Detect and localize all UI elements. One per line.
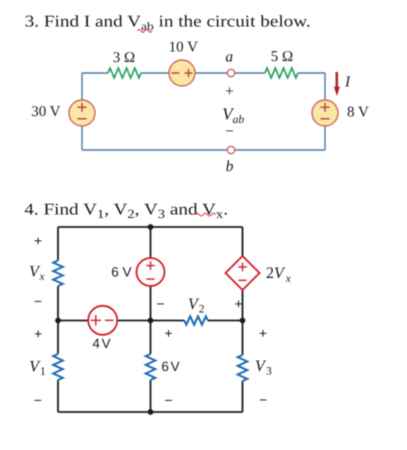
svg-text:−: −: [259, 393, 267, 408]
svg-text:x: x: [39, 271, 46, 283]
svg-text:a: a: [225, 48, 233, 65]
svg-text:5 Ω: 5 Ω: [271, 49, 293, 65]
resistor 5 ohm: [265, 49, 298, 78]
svg-text:+: +: [259, 326, 267, 341]
resistor 3 ohm: [108, 50, 141, 78]
svg-text:6 V: 6 V: [111, 264, 131, 279]
svg-text:2: 2: [199, 304, 205, 316]
voltage source 30V: [31, 100, 95, 126]
dependent source 2Vx diamond: [226, 256, 260, 290]
svg-text:+: +: [234, 296, 242, 311]
label +Vab-: [222, 83, 244, 140]
svg-text:I: I: [344, 74, 351, 91]
svg-text:−: −: [164, 393, 172, 408]
label V3: [255, 358, 272, 378]
red squiggle under ab: [137, 30, 152, 33]
wire bottom circuit 2: [58, 411, 243, 413]
wire bottom circuit 1: [82, 149, 325, 151]
svg-text:30 V: 30 V: [31, 104, 60, 120]
junction dot bottom middle: [148, 409, 154, 415]
svg-text:b: b: [226, 158, 234, 175]
wire top circuit 1: [82, 72, 325, 74]
wire right circuit 1: [324, 73, 326, 150]
label Vx: [29, 264, 45, 284]
node b: [226, 146, 235, 175]
svg-text:4. Find V1, V2, V3 and Vx.: 4. Find V1, V2, V3 and Vx.: [24, 199, 228, 220]
svg-text:x: x: [285, 273, 292, 285]
svg-text:1: 1: [40, 366, 46, 378]
junction dot right middle: [240, 318, 246, 324]
svg-text:+: +: [225, 83, 234, 100]
wire left rail segments: [57, 227, 59, 412]
node a: [225, 48, 234, 76]
voltage source 8V: [312, 100, 369, 126]
svg-text:+: +: [34, 233, 42, 248]
svg-text:−: −: [225, 123, 234, 140]
wire middle rail segments: [150, 227, 152, 412]
svg-text:+: +: [34, 326, 42, 341]
junction dot top middle: [148, 224, 154, 230]
title problem 3: [25, 12, 311, 34]
voltage source 6V: [111, 258, 164, 286]
svg-text:ab: ab: [233, 114, 245, 126]
junction dot middle middle: [148, 318, 154, 324]
svg-text:−: −: [34, 294, 42, 309]
current arrow I: [334, 72, 351, 96]
resistor 6V middle: [146, 354, 180, 380]
label V2: [188, 296, 205, 316]
wire left circuit 1: [81, 73, 83, 150]
svg-text:+: +: [164, 326, 172, 341]
wire right rail segments: [242, 227, 244, 412]
svg-text:8 V: 8 V: [347, 105, 369, 121]
resistor V2: [184, 316, 208, 324]
svg-text:−: −: [156, 296, 164, 311]
resistor Vx: [53, 261, 63, 287]
resistor V1: [53, 354, 63, 380]
svg-text:6V: 6V: [161, 359, 179, 374]
svg-text:3: 3: [266, 366, 272, 378]
voltage source 4V: [88, 306, 117, 351]
title problem 4: [24, 199, 228, 220]
junction dot left middle: [55, 318, 61, 324]
label V1: [29, 359, 46, 379]
wire top circuit 2: [58, 226, 243, 228]
red squiggle under x: [195, 213, 216, 216]
label 2Vx: [266, 265, 292, 285]
wire middle horizontal segments: [58, 320, 243, 322]
resistor V3: [238, 355, 248, 381]
svg-text:10 V: 10 V: [169, 40, 198, 56]
svg-text:−: −: [34, 393, 42, 408]
voltage source 10V: [169, 40, 198, 87]
svg-text:3 Ω: 3 Ω: [113, 50, 135, 66]
svg-text:2V: 2V: [266, 265, 286, 282]
svg-text:3. Find I and Vab in the circu: 3. Find I and Vab in the circuit below.: [25, 12, 311, 34]
svg-text:4V: 4V: [92, 336, 110, 351]
